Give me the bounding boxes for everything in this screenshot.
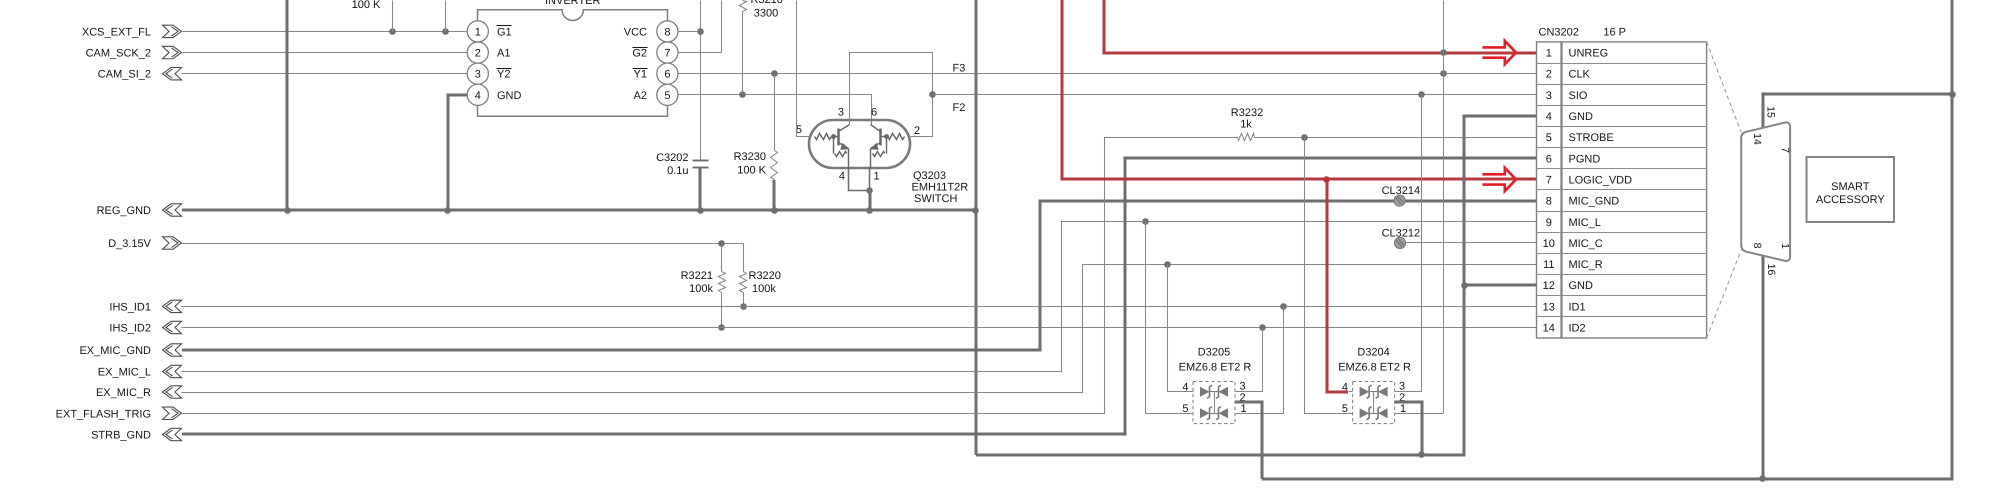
svg-text:1: 1 [874, 171, 880, 183]
wire D3204 pin 4 stub (gray part) [1349, 391, 1353, 393]
wire GND net (thick): row 4 stub, riser x=1464, row 12 junction, lower bus [976, 116, 1536, 458]
svg-text:GND: GND [1569, 111, 1594, 123]
wire EX_MIC_L to MIC_L (row 9) [182, 218, 1537, 371]
svg-text:1k: 1k [1240, 119, 1252, 131]
wire D3205 pin 1 to IHS_ID1 riser [1236, 307, 1284, 414]
power-flag arrow into UNREG pin 1 (red) [1482, 41, 1516, 64]
resistor R3230 100 K [734, 74, 778, 211]
svg-text:CL3212: CL3212 [1382, 228, 1421, 240]
port CAM_SI_2 [98, 68, 182, 81]
svg-text:UNREG: UNREG [1569, 48, 1609, 60]
svg-text:SIO: SIO [1569, 90, 1588, 102]
wire D3204 pin 1 to CLK riser [1395, 413, 1444, 415]
svg-text:2: 2 [1546, 69, 1552, 81]
svg-text:EX_MIC_GND: EX_MIC_GND [79, 345, 151, 357]
capacitor C3202 0.1u [656, 152, 708, 210]
svg-text:XCS_EXT_FL: XCS_EXT_FL [82, 26, 151, 38]
svg-text:CLK: CLK [1569, 69, 1591, 81]
wire LOGIC_VDD net (red): riser from top edge, row 7 to table, branch down to D3204 pin 4 [1062, 0, 1536, 392]
svg-text:D_3.15V: D_3.15V [108, 238, 151, 250]
wire Y1/F3/CLK net (row 2) from pin 6 to connector table [679, 70, 1537, 77]
wire D3204 pin 3 to SIO riser [1395, 95, 1422, 392]
wire D3205 pin 5 to MIC_L riser [1146, 222, 1194, 414]
svg-text:ID1: ID1 [1569, 301, 1586, 313]
dashed mate line top [1707, 42, 1742, 132]
svg-text:13: 13 [1543, 301, 1555, 313]
svg-text:8: 8 [1546, 196, 1552, 208]
svg-text:14: 14 [1543, 323, 1555, 335]
wire EX_MIC_GND to MIC_GND (row 8) thick [182, 201, 1536, 350]
wire VCC net: pin 8 stub, riser to top edge and down to C3202 [679, 1, 704, 161]
port EX_MIC_L [98, 365, 182, 378]
wire EXT_FLASH_TRIG up to STROBE (row 5) [182, 138, 1238, 414]
svg-text:11: 11 [1543, 259, 1554, 271]
svg-text:3: 3 [1546, 90, 1552, 102]
smart accessory block [1807, 157, 1895, 222]
svg-text:3: 3 [475, 69, 481, 81]
svg-text:STRB_GND: STRB_GND [91, 430, 151, 442]
svg-text:G1: G1 [497, 26, 512, 38]
net label F2 [953, 102, 966, 114]
svg-text:ID2: ID2 [1569, 323, 1586, 335]
svg-text:100 K: 100 K [737, 165, 766, 177]
wire D3205 pin 3 to IHS_ID2 riser [1236, 328, 1263, 392]
svg-text:R3232: R3232 [1231, 107, 1263, 119]
svg-text:3300: 3300 [754, 8, 778, 20]
svg-text:CL3214: CL3214 [1382, 185, 1421, 197]
svg-text:R3221: R3221 [681, 270, 713, 282]
transistor Q3203 EMH11T2R dual digital transistor (stadium outline) [796, 107, 968, 206]
svg-text:1: 1 [475, 26, 481, 38]
svg-text:IHS_ID1: IHS_ID1 [109, 301, 151, 313]
wire A2/F2 net segment: pin 5 to Q3203 pin 6 riser, junction with R3210 [679, 91, 872, 124]
wire REG_GND bus (thick) with junctions [182, 207, 979, 214]
svg-text:4: 4 [475, 90, 481, 102]
svg-text:Q3203: Q3203 [913, 170, 946, 182]
svg-text:LOGIC_VDD: LOGIC_VDD [1569, 174, 1633, 186]
wire XCS_EXT_FL net (row 0) with junctions of pull-up stubs [182, 28, 467, 35]
wire Q3203 pin 3 to pin 2 loop with F2 junction [850, 53, 936, 137]
svg-text:CN3202: CN3202 [1539, 26, 1579, 38]
wire Q3203 pins 4 and 1 to REG_GND (junction) [849, 169, 873, 211]
port XCS_EXT_FL [82, 25, 182, 38]
svg-text:1: 1 [1779, 243, 1791, 249]
svg-text:10: 10 [1543, 238, 1555, 250]
wire D_3.15V net with junction to R3221 and corner down to R3220 [182, 240, 744, 247]
wire D3205 pin 4 to MIC_R riser [1168, 265, 1194, 392]
svg-text:SWITCH: SWITCH [914, 193, 957, 205]
svg-text:STROBE: STROBE [1569, 132, 1614, 144]
svg-text:5: 5 [1546, 132, 1552, 144]
resistor R3221 100k [681, 244, 726, 331]
svg-text:SMART: SMART [1831, 181, 1870, 193]
svg-text:6: 6 [664, 69, 670, 81]
port IHS_ID2 [109, 321, 181, 334]
svg-text:EX_MIC_R: EX_MIC_R [96, 387, 151, 399]
wire IHS_ID2/ID2 net (row 14) full width with junctions [182, 324, 1537, 331]
resistor R3210 3300 (cropped at top) [740, 0, 783, 95]
svg-text:3: 3 [838, 107, 844, 119]
svg-text:EMH11T2R: EMH11T2R [912, 182, 969, 194]
svg-text:4: 4 [1546, 111, 1552, 123]
svg-text:5: 5 [664, 90, 670, 102]
svg-text:C3202: C3202 [656, 152, 688, 164]
port STRB_GND [91, 428, 181, 441]
ferrite bead CL3214 on MIC_GND [1382, 185, 1421, 206]
svg-text:VCC: VCC [624, 26, 647, 38]
port EX_MIC_R [96, 386, 182, 399]
svg-text:ACCESSORY: ACCESSORY [1816, 194, 1886, 206]
wire REG_GND riser to top edge (thick) [286, 0, 289, 210]
svg-text:16: 16 [1765, 264, 1777, 276]
svg-text:GND: GND [1569, 280, 1594, 292]
port D_3.15V [108, 237, 181, 250]
dashed mate line bottom [1707, 250, 1742, 338]
svg-text:6: 6 [871, 107, 877, 119]
svg-text:INVERTER: INVERTER [545, 0, 600, 7]
connector J smart-accessory D-shell [1741, 106, 1791, 275]
svg-text:EXT_FLASH_TRIG: EXT_FLASH_TRIG [56, 408, 151, 420]
op-amp/inverter IC U3201 INVERTER (cropped at top) [467, 0, 678, 116]
svg-text:12: 12 [1543, 280, 1555, 292]
svg-text:2: 2 [914, 125, 920, 137]
svg-text:14: 14 [1751, 133, 1763, 145]
ferrite bead CL3212 on MIC_C [1382, 228, 1421, 249]
wire G2 pin 7 up to top edge [679, 1, 722, 53]
svg-text:EMZ6.8 ET2 R: EMZ6.8 ET2 R [1179, 362, 1252, 374]
port CAM_SCK_2 [86, 46, 182, 59]
svg-text:PGND: PGND [1569, 153, 1601, 165]
svg-text:A2: A2 [634, 90, 647, 102]
svg-text:15: 15 [1764, 106, 1776, 118]
wire Q3203 pin 5 riser to top edge [797, 1, 810, 137]
svg-text:R3230: R3230 [734, 151, 766, 163]
wire D3204 pin 5 to STROBE riser [1305, 138, 1353, 414]
svg-text:16 P: 16 P [1603, 26, 1626, 38]
svg-text:7: 7 [1546, 174, 1552, 186]
svg-text:EMZ6.8 ET2 R: EMZ6.8 ET2 R [1338, 362, 1411, 374]
svg-text:4: 4 [839, 171, 845, 183]
svg-text:4: 4 [1342, 382, 1348, 394]
svg-text:100 K: 100 K [352, 0, 381, 11]
svg-text:D3205: D3205 [1198, 346, 1230, 358]
pull-up stub lead at x=446 [445, 1, 447, 32]
port EXT_FLASH_TRIG [56, 407, 182, 420]
svg-text:2: 2 [475, 48, 481, 60]
svg-text:GND: GND [497, 90, 522, 102]
svg-text:3: 3 [1240, 381, 1246, 393]
svg-text:100k: 100k [689, 283, 713, 295]
svg-text:7: 7 [1779, 147, 1791, 153]
svg-text:8: 8 [664, 26, 670, 38]
svg-text:IHS_ID2: IHS_ID2 [109, 323, 151, 335]
port EX_MIC_GND [79, 344, 181, 357]
svg-text:CAM_SCK_2: CAM_SCK_2 [86, 48, 151, 60]
svg-text:7: 7 [664, 48, 670, 60]
wire IHS_ID1/ID1 net (row 13) full width with junctions [182, 303, 1537, 310]
svg-text:1: 1 [1546, 48, 1552, 60]
svg-text:3: 3 [1399, 381, 1405, 393]
net label F3 [953, 63, 966, 75]
svg-text:MIC_C: MIC_C [1569, 238, 1603, 250]
svg-text:MIC_R: MIC_R [1569, 259, 1603, 271]
wire UNREG net (red): riser from top edge and row 1 to table; junction of top branch [1104, 0, 1536, 56]
wire STROBE (row 5) from R3232 to table with junction to D3204 pin 5 [1255, 134, 1537, 141]
wire F2/SIO net (row 3) from Q3203 to connector table [933, 91, 1537, 98]
wire branch riser x=1443 from top edge through UNREG to CLK and down to D3204 pin 1 [1443, 1, 1445, 414]
svg-text:Y2: Y2 [497, 69, 510, 81]
svg-text:9: 9 [1546, 217, 1552, 229]
connector CN3202 16P pin table [1537, 26, 1707, 338]
svg-text:8: 8 [1751, 243, 1763, 249]
resistor R3220 100k [740, 244, 781, 310]
wire smart-accessory pin 16 down to bottom bus (thick) [1762, 255, 1765, 479]
svg-text:REG_GND: REG_GND [97, 205, 151, 217]
diode array D3204 EMZ6.8ET2R (dashed box, two zener pairs) [1338, 346, 1411, 423]
svg-text:6: 6 [1546, 153, 1552, 165]
wire smart-accessory pin 15 feed (thick) from right riser [1763, 91, 1956, 127]
svg-text:D3204: D3204 [1357, 346, 1389, 358]
svg-text:Y1: Y1 [634, 69, 647, 81]
svg-text:CAM_SI_2: CAM_SI_2 [98, 69, 151, 81]
resistor R3232 1k [1231, 107, 1263, 141]
svg-text:R3220: R3220 [749, 270, 781, 282]
wire D3205 pin 2 (thick) down to bottom GND bus [1235, 402, 1262, 479]
wire EX_MIC_R to MIC_R (row 11) [182, 261, 1537, 392]
power-flag arrow into LOGIC_VDD pin 7 (red) [1482, 168, 1516, 191]
wire CAM_SI_2 net to inverter pin 3 [182, 73, 467, 75]
svg-text:EX_MIC_L: EX_MIC_L [98, 367, 151, 379]
svg-text:MIC_GND: MIC_GND [1569, 196, 1620, 208]
wire D3204 pin 2 (thick) down to GND bus junction [1395, 402, 1422, 455]
wire CAM_SCK_2 net to inverter pin 2 [182, 52, 467, 54]
port REG_GND [97, 204, 182, 217]
wire thick riser x=975.5 top edge to lower GND bus [975, 0, 978, 455]
svg-text:100k: 100k [752, 283, 776, 295]
svg-text:F3: F3 [953, 63, 966, 75]
wire bottom GND bus (thick) to right riser with junction [1262, 0, 1952, 482]
svg-text:0.1u: 0.1u [667, 165, 688, 177]
diode array D3205 EMZ6.8ET2R (dashed box, two zener pairs) [1179, 346, 1252, 423]
wire MIC_C (row 10) from CL3212 to table [1406, 242, 1537, 244]
svg-text:G2: G2 [632, 48, 647, 60]
svg-text:MIC_L: MIC_L [1569, 217, 1601, 229]
wire inverter GND pin 4 to REG_GND bus (thick) [448, 95, 467, 210]
port IHS_ID1 [109, 300, 181, 313]
svg-text:A1: A1 [497, 48, 510, 60]
resistor (cropped) 100 K pull-up, lead into XCS_EXT_FL [352, 0, 393, 32]
wire STRB_GND to PGND (row 6) thick [182, 158, 1536, 434]
svg-text:F2: F2 [953, 102, 966, 114]
svg-text:R3210: R3210 [751, 0, 783, 6]
